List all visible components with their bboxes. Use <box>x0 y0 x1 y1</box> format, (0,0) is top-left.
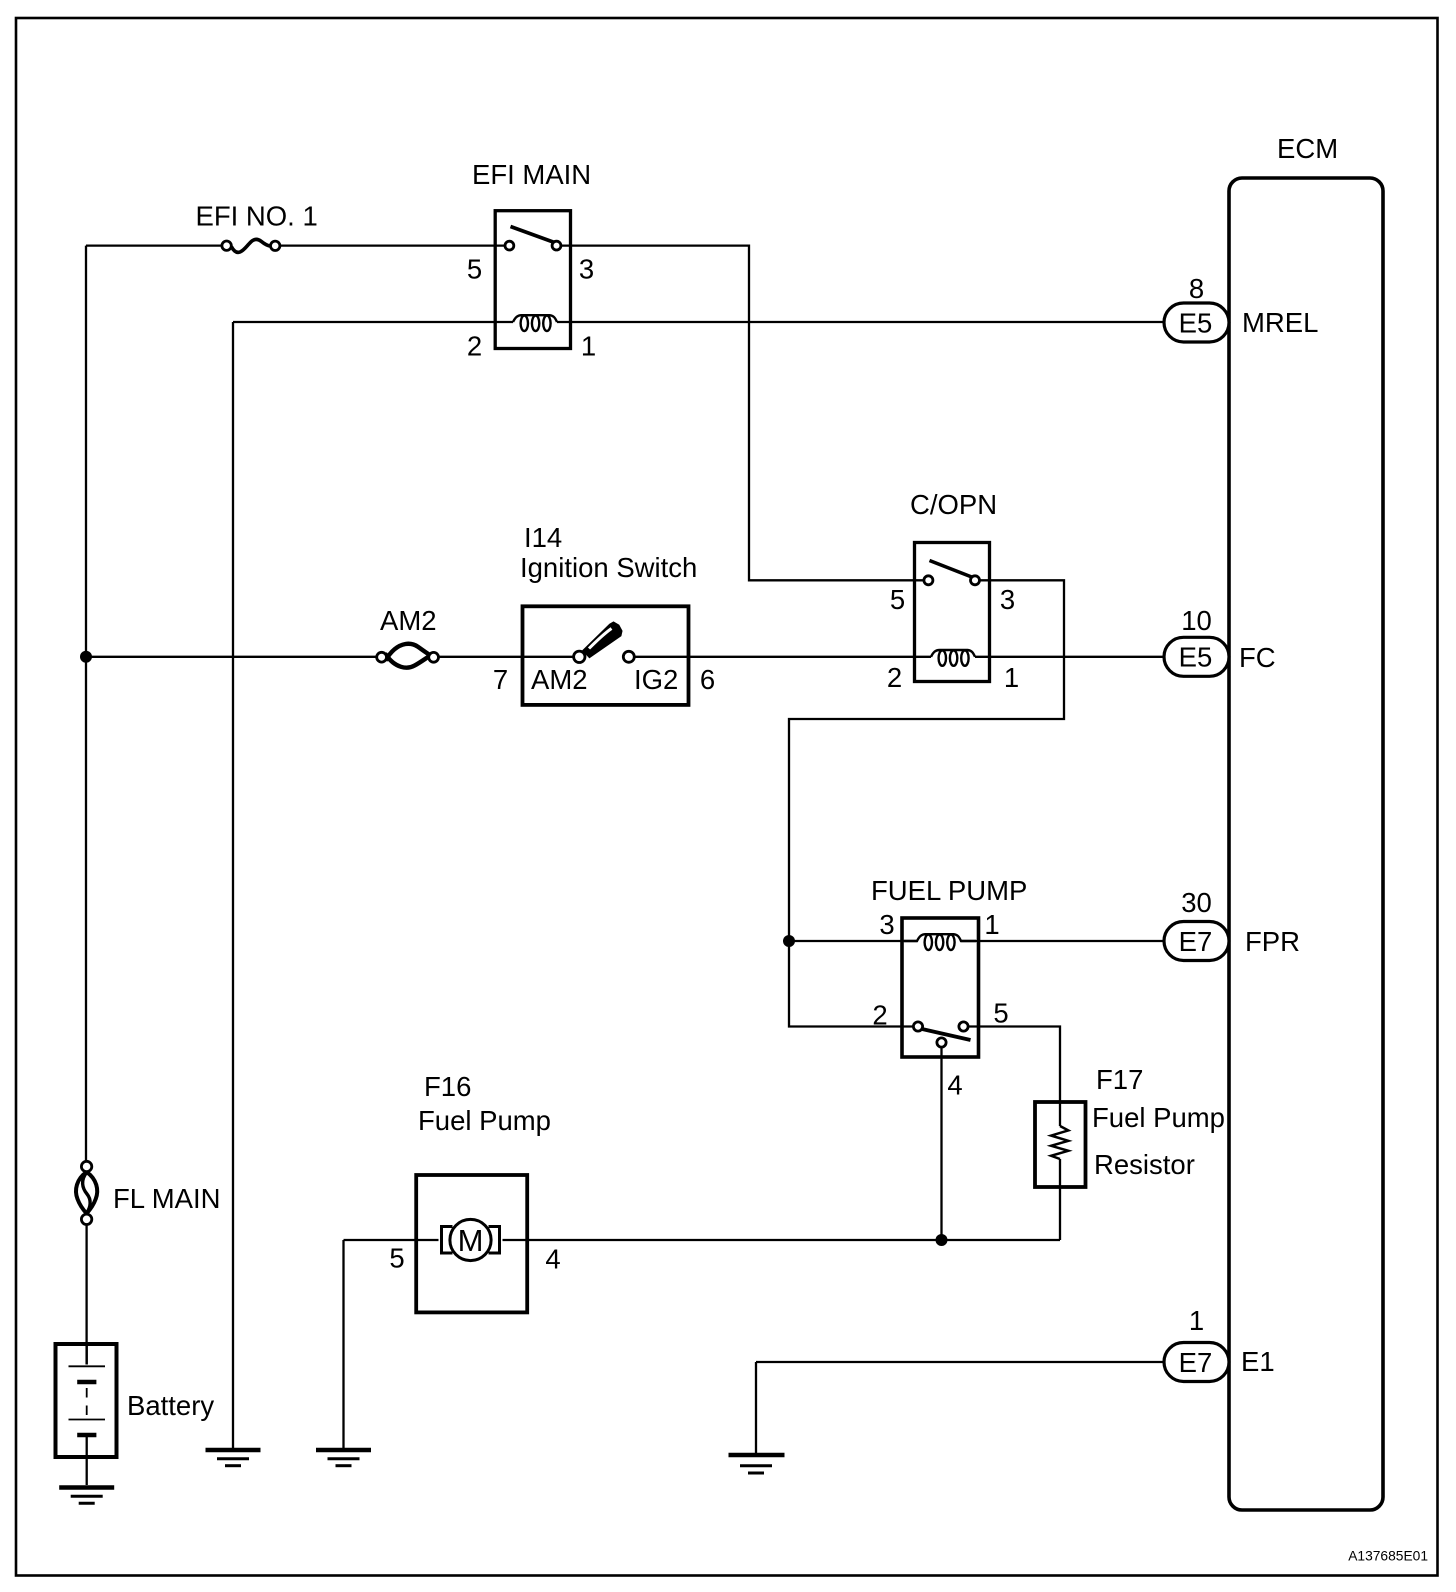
pin number 6 of I14 <box>700 664 715 695</box>
svg-text:5: 5 <box>467 254 482 285</box>
pin number 7 of I14 <box>493 664 508 695</box>
relay EFI MAIN switch contacts (pins 5-3) <box>505 227 561 251</box>
wire from battery feed to EFI NO.1 fuse and EFI MAIN pin 5 <box>86 244 505 246</box>
svg-text:E1: E1 <box>1241 1346 1275 1377</box>
svg-text:5: 5 <box>993 997 1008 1028</box>
ground for battery <box>59 1488 114 1504</box>
wire FUEL PUMP pin 4 down to fuel pump motor row <box>940 1047 942 1240</box>
ECM block <box>1229 133 1383 1510</box>
relay C/OPN <box>910 489 997 682</box>
pin number 4 of F16 <box>545 1244 560 1275</box>
svg-text:E7: E7 <box>1179 926 1213 957</box>
resistor F17 fuel pump resistor <box>1035 1064 1225 1187</box>
svg-text:I14: I14 <box>524 522 562 553</box>
svg-text:MREL: MREL <box>1242 307 1318 338</box>
pin number 1 of FUEL PUMP <box>984 909 999 940</box>
svg-text:Ignition Switch: Ignition Switch <box>520 552 697 583</box>
fusible link AM2 <box>377 605 439 668</box>
pin number 2 of EFI MAIN <box>467 330 482 361</box>
node junction at FUEL PUMP coil branch <box>783 935 795 947</box>
wire FUEL PUMP pin 1 to ECM FPR <box>961 940 1164 942</box>
svg-text:EFI NO. 1: EFI NO. 1 <box>196 200 318 231</box>
svg-text:1: 1 <box>581 330 596 361</box>
svg-text:4: 4 <box>545 1244 560 1275</box>
pin number 3 of EFI MAIN <box>579 254 594 285</box>
ground for fuel pump motor <box>316 1450 371 1466</box>
node junction at battery bus and AM2 row <box>80 651 92 663</box>
wire C/OPN pin 1 to ECM FC <box>975 656 1164 658</box>
svg-text:FC: FC <box>1239 642 1276 673</box>
wire EFI MAIN pin 1 to ECM MREL <box>557 321 1164 323</box>
label A137685E01 <box>1348 1549 1428 1564</box>
wire FUEL PUMP coil pin 3 branch <box>789 940 917 942</box>
pin number 2 of FUEL PUMP <box>872 999 887 1030</box>
svg-text:E5: E5 <box>1179 642 1213 673</box>
svg-text:10: 10 <box>1181 605 1212 636</box>
wire main ignition row: junction to AM2 fuse, to ignition switch, to C/OPN coil <box>86 656 931 658</box>
svg-text:Resistor: Resistor <box>1094 1149 1195 1180</box>
svg-text:1: 1 <box>1004 662 1019 693</box>
svg-text:3: 3 <box>879 909 894 940</box>
fusible link FL MAIN <box>76 1161 220 1224</box>
svg-text:8: 8 <box>1189 273 1204 304</box>
wire EFI MAIN pin 3 to C/OPN pin 5 <box>561 246 924 581</box>
ignition switch I14 <box>520 522 697 705</box>
svg-text:5: 5 <box>389 1243 404 1274</box>
relay FUEL PUMP <box>871 875 1027 1057</box>
svg-text:3: 3 <box>1000 584 1015 615</box>
ignition switch contact IG2 (pin 6) <box>623 651 678 695</box>
svg-text:M: M <box>458 1223 484 1258</box>
svg-text:E7: E7 <box>1179 1347 1213 1378</box>
svg-text:FL MAIN: FL MAIN <box>113 1183 220 1214</box>
connector E7 pin 30 FPR <box>1164 887 1300 961</box>
connector E5 pin 8 MREL <box>1164 273 1318 342</box>
wire ECM E1 to ground <box>756 1362 1164 1455</box>
svg-text:30: 30 <box>1181 887 1212 918</box>
svg-text:C/OPN: C/OPN <box>910 489 997 520</box>
svg-text:1: 1 <box>984 909 999 940</box>
svg-text:7: 7 <box>493 664 508 695</box>
wire C/OPN pin 3 down and over to FUEL PUMP relay pins 3 and 2 <box>789 580 1064 1026</box>
svg-text:AM2: AM2 <box>531 664 588 695</box>
svg-text:Fuel Pump: Fuel Pump <box>1092 1102 1225 1133</box>
wire battery vertical bus <box>85 246 87 1162</box>
pin number 4 of FUEL PUMP <box>947 1069 962 1100</box>
svg-text:1: 1 <box>1189 1305 1204 1336</box>
svg-text:2: 2 <box>467 330 482 361</box>
motor F16 fuel pump <box>416 1071 551 1312</box>
svg-text:Fuel Pump: Fuel Pump <box>418 1105 551 1136</box>
ignition switch lever <box>584 623 622 658</box>
svg-text:6: 6 <box>700 664 715 695</box>
pin number 5 of FUEL PUMP <box>993 997 1008 1028</box>
pin number 5 of F16 <box>389 1243 404 1274</box>
connector E7 pin 1 E1 <box>1164 1305 1275 1382</box>
svg-text:3: 3 <box>579 254 594 285</box>
wire FL MAIN to battery <box>85 1225 87 1365</box>
svg-text:5: 5 <box>890 584 905 615</box>
wire battery internal leads <box>86 1346 88 1485</box>
ground for ECM E1 <box>729 1455 785 1473</box>
pin number 5 of C/OPN <box>890 584 905 615</box>
svg-text:F17: F17 <box>1096 1064 1143 1095</box>
svg-text:A137685E01: A137685E01 <box>1348 1549 1428 1564</box>
battery <box>56 1344 215 1457</box>
pin number 1 of EFI MAIN <box>581 330 596 361</box>
ignition switch contact AM2 (pin 7) <box>531 651 588 695</box>
relay FUEL PUMP switch contacts (pins 2-5-4) <box>913 1022 970 1047</box>
motor M symbol of F16 <box>442 1219 500 1260</box>
pin number 3 of FUEL PUMP <box>879 909 894 940</box>
fuse EFI NO. 1 <box>196 200 318 252</box>
pin number 5 of EFI MAIN <box>467 254 482 285</box>
relay FUEL PUMP coil (pins 3-1) <box>904 934 976 950</box>
wire fuel pump motor row: pin 4 of F16 to resistor bottom <box>503 1239 1061 1241</box>
svg-text:FUEL PUMP: FUEL PUMP <box>871 875 1027 906</box>
pin number 2 of C/OPN <box>887 662 902 693</box>
connector E5 pin 10 FC <box>1164 605 1276 676</box>
node junction at fuel pump motor row <box>936 1234 948 1246</box>
ground for EFI MAIN relay coil feed <box>206 1450 261 1466</box>
svg-text:FPR: FPR <box>1245 926 1300 957</box>
wire F16 pin 5 to ground <box>344 1240 439 1450</box>
svg-text:E5: E5 <box>1179 307 1213 338</box>
relay C/OPN coil (pins 2-1) <box>931 650 975 666</box>
svg-text:EFI MAIN: EFI MAIN <box>472 159 591 190</box>
wire FUEL PUMP pin 5 down through F17 resistor <box>968 1027 1060 1241</box>
svg-text:2: 2 <box>872 999 887 1030</box>
relay EFI MAIN coil (pins 2-1) <box>513 315 557 331</box>
svg-text:4: 4 <box>947 1069 962 1100</box>
wire EFI MAIN pin 2 feed (down to ground) <box>233 322 513 1450</box>
svg-text:IG2: IG2 <box>634 664 678 695</box>
svg-text:F16: F16 <box>424 1071 471 1102</box>
svg-text:Battery: Battery <box>127 1390 214 1421</box>
svg-text:AM2: AM2 <box>380 605 437 636</box>
relay EFI MAIN <box>472 159 591 349</box>
pin number 1 of C/OPN <box>1004 662 1019 693</box>
relay C/OPN switch contacts (pins 5-3) <box>924 561 980 585</box>
svg-text:2: 2 <box>887 662 902 693</box>
pin number 3 of C/OPN <box>1000 584 1015 615</box>
svg-text:ECM: ECM <box>1277 133 1338 164</box>
